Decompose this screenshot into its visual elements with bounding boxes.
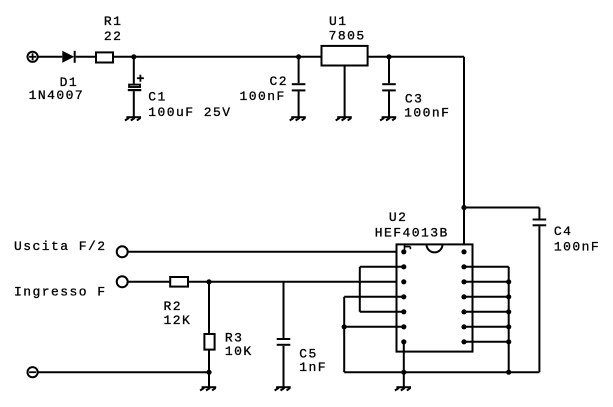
terminal + (positive supply input) <box>27 52 37 62</box>
svg-text:Ingresso F: Ingresso F <box>14 285 107 300</box>
junction node C1 <box>131 54 136 59</box>
junction bus pin 10 <box>506 309 511 314</box>
C5 top plate <box>277 338 291 340</box>
wire node C4 to capacitor C4 <box>464 207 539 209</box>
wire U1 ground pin down <box>344 66 346 118</box>
wire Uscita terminal to U2 pin 1 <box>128 251 404 253</box>
U2 pin 2 <box>401 264 406 269</box>
C1 plus polarity mark <box>137 77 144 79</box>
wire U2 pin 5 stub <box>360 311 404 313</box>
wire pin7 node to ground <box>403 372 405 387</box>
wire C4 to bottom rail <box>538 226 540 372</box>
U2 pin 11 <box>461 294 466 299</box>
U2 pin 7 <box>401 339 406 344</box>
bottom ground rail <box>344 371 539 373</box>
wire U2 pin 10 stub <box>464 311 509 313</box>
svg-text:1N4007: 1N4007 <box>29 88 85 103</box>
wire node R3 down to R3 <box>208 282 210 335</box>
C1 negative plate <box>128 89 142 91</box>
wire U2 pin 2 stub <box>360 266 404 268</box>
U2 pin 12 <box>461 279 466 284</box>
wire node C3 to +5V corner <box>389 56 464 58</box>
svg-text:U1: U1 <box>329 14 348 29</box>
capacitor C1 (electrolytic) <box>128 57 144 117</box>
wire U2 pin 6 stub <box>344 326 404 328</box>
right bus vertical wire <box>508 267 510 372</box>
svg-text:100uF 25V: 100uF 25V <box>148 105 231 120</box>
resistor R3 <box>204 282 214 372</box>
wire + terminal to D1 anode <box>38 56 62 58</box>
resistor R1 <box>96 52 113 62</box>
wire node C2 to U1 input <box>299 56 322 58</box>
wire R3 bottom to ground <box>208 372 210 387</box>
svg-text:R2: R2 <box>164 299 183 314</box>
svg-text:C2: C2 <box>270 74 289 89</box>
U2 pin 6 <box>401 324 406 329</box>
C2 top plate <box>292 83 306 85</box>
wire U2 pin 7 down to bottom rail <box>403 342 405 372</box>
junction bus pin 11 <box>506 294 511 299</box>
junction bus pin 12 <box>506 279 511 284</box>
svg-text:22: 22 <box>104 29 123 44</box>
regulator U1 7805 <box>322 46 368 66</box>
ground U2 <box>395 387 411 390</box>
junction node C4 <box>461 205 466 210</box>
U2 pin 14 <box>461 249 466 254</box>
wire R2 to node R3 <box>188 281 209 283</box>
wire U1 output to node C3 <box>368 56 389 58</box>
U2 pin 1 marker <box>405 244 411 252</box>
wire U2 pin 11 stub <box>464 296 509 298</box>
ground U1 <box>336 117 352 120</box>
wire node C1 to node C2 <box>134 56 299 58</box>
svg-text:100nF: 100nF <box>404 106 450 121</box>
U2 pin 10 <box>461 309 466 314</box>
terminal - (negative input) <box>27 367 37 377</box>
wire Ingresso terminal to R2 <box>128 281 171 283</box>
capacitor C4 <box>533 208 547 373</box>
U2 pin 13 <box>461 264 466 269</box>
wire U2 pin 4 stub <box>344 296 404 298</box>
U2 pin 9 <box>461 324 466 329</box>
U2 pin 5 <box>401 309 406 314</box>
svg-text:1nF: 1nF <box>299 360 327 375</box>
junction bus to bottom rail <box>506 370 511 375</box>
wire R1 to node C1 <box>114 56 134 58</box>
diode D1 <box>62 51 74 63</box>
svg-text:10K: 10K <box>225 344 253 359</box>
wire node C5 down to C5 <box>283 282 285 338</box>
wire C5 to ground <box>283 346 285 387</box>
wire R3 to bottom rail <box>208 350 210 373</box>
svg-text:100nF: 100nF <box>240 89 286 104</box>
wire node C5 to U2 pin 3 <box>284 281 404 283</box>
wire U2 pin 9 stub <box>464 326 509 328</box>
C2 bottom plate <box>292 89 306 91</box>
svg-text:C1: C1 <box>148 90 167 105</box>
wire +5V vertical down to node C4 <box>463 57 465 208</box>
wire node C3 to C3 <box>388 57 390 83</box>
C4 top plate <box>533 219 547 221</box>
wire U2 pin 8 stub <box>464 341 509 343</box>
C4 bottom plate <box>533 224 547 226</box>
C5 bottom plate <box>277 344 291 346</box>
svg-text:U2: U2 <box>389 210 408 225</box>
wire C3 to ground <box>388 91 390 117</box>
ground R3 <box>200 387 216 390</box>
ground C2 <box>290 117 306 120</box>
wire pin2 to pin5 vertical <box>359 267 361 312</box>
U2 pin 3 <box>401 279 406 284</box>
svg-text:Uscita F/2: Uscita F/2 <box>14 239 107 254</box>
U2 pin 1 <box>401 249 406 254</box>
wire C1 to ground <box>133 91 135 117</box>
wire D1 cathode to R1 <box>76 56 97 58</box>
wire node C4 down to U2 pin 14 <box>463 208 465 252</box>
ground C1 <box>125 117 141 120</box>
ground C5 <box>275 387 291 390</box>
C1 positive plate <box>129 85 140 87</box>
svg-text:7805: 7805 <box>329 29 366 44</box>
wire U2 pin 13 stub <box>464 266 509 268</box>
U2 pin 4 <box>401 294 406 299</box>
wire pin4 to bottom rail vertical <box>343 297 345 372</box>
svg-text:C3: C3 <box>405 92 424 107</box>
ground C3 <box>380 117 396 120</box>
junction node C3 <box>386 54 391 59</box>
U2 notch <box>427 244 443 252</box>
IC U2 HEF4013B body <box>397 244 473 351</box>
U2 pin 8 <box>461 339 466 344</box>
junction node C2 <box>296 54 301 59</box>
junction node R3 bottom <box>206 370 211 375</box>
C3 top plate <box>382 83 396 85</box>
svg-text:100nF: 100nF <box>554 240 600 255</box>
wire node C1 to C1 plus plate <box>133 57 135 84</box>
junction pin7 ground node <box>401 370 406 375</box>
svg-text:C4: C4 <box>554 224 573 239</box>
junction bus pin 9 <box>506 324 511 329</box>
capacitor C2 <box>292 57 306 117</box>
wire node C2 to C2 <box>298 57 300 83</box>
svg-text:HEF4013B: HEF4013B <box>375 225 449 240</box>
svg-text:R1: R1 <box>104 14 123 29</box>
wire - terminal to node R3 bottom <box>38 371 209 373</box>
wire node C4 corner down to C4 <box>538 208 540 219</box>
terminal Uscita F/2 <box>117 246 128 257</box>
resistor R2 <box>170 277 188 287</box>
junction pin4-pin6 <box>342 324 347 329</box>
junction node R3 top <box>206 279 211 284</box>
junction bus pin 8 <box>506 339 511 344</box>
capacitor C3 <box>382 57 396 117</box>
svg-text:12K: 12K <box>164 313 192 328</box>
wire node R3 to node C5 <box>209 281 284 283</box>
capacitor C5 <box>277 282 291 387</box>
C3 bottom plate <box>382 89 396 91</box>
terminal Ingresso F <box>117 276 128 287</box>
wire C2 to ground <box>298 91 300 117</box>
wire U2 pin 12 stub <box>464 281 509 283</box>
